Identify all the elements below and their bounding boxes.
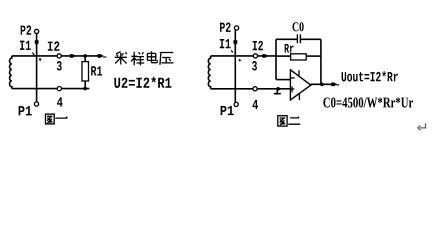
annotation 采样电压 (sampled voltage), drawn glyphs xyxy=(115,51,174,65)
inductor L2 (CT secondary winding) xyxy=(208,56,210,89)
wire: feedback left vertical (C0/Rr to inverting input) xyxy=(275,39,277,79)
wire: bottom horizontal to + input xyxy=(211,88,291,90)
wire: C0 branch right xyxy=(301,38,321,40)
annotation C0=4500/W*Rr*Ur xyxy=(323,97,413,107)
tiny tail after output arrow xyxy=(337,84,340,86)
电 xyxy=(147,51,157,62)
annotation U2=I2*R1 xyxy=(114,77,171,88)
caption 二 xyxy=(288,117,300,124)
caption 一 xyxy=(55,117,67,118)
annotation Uout=I2*Rr xyxy=(342,71,398,81)
label 4 xyxy=(57,97,63,106)
label Rr xyxy=(285,44,294,53)
label 3 xyxy=(57,61,62,71)
op-amp plus input sign xyxy=(290,86,295,92)
resistor R1 stubs xyxy=(84,56,86,89)
采 xyxy=(115,52,127,65)
resistor R1 body xyxy=(82,62,89,81)
caption 图一 (Figure 1) : 图 drawn xyxy=(46,114,55,124)
wire: top horizontal (secondary to summing node) xyxy=(211,55,276,57)
label 3 xyxy=(252,61,257,71)
resistor Rr body xyxy=(291,54,307,60)
arrow at right end of top wire xyxy=(98,54,104,58)
label P1 xyxy=(221,106,234,115)
wire: C0 branch left xyxy=(276,38,297,40)
label I1 xyxy=(220,39,231,48)
node: junction dot top of R1 xyxy=(83,54,87,58)
terminal 3 (open circle) xyxy=(253,54,257,58)
small arrowhead below junction xyxy=(39,58,42,61)
样 xyxy=(131,52,144,65)
op-amp U1 triangle xyxy=(290,70,310,100)
label 4 xyxy=(252,100,258,109)
label P1 xyxy=(19,106,32,115)
terminal 3 (open circle) xyxy=(57,54,61,58)
wire: feedback right vertical down to output xyxy=(320,39,322,84)
node: junction dot bottom of R1 xyxy=(83,87,87,91)
small tick left of junction xyxy=(33,53,35,56)
wire: output xyxy=(311,83,332,85)
terminal P1 (open circle) xyxy=(234,102,238,106)
label P2 xyxy=(21,25,32,34)
label P2 xyxy=(220,23,231,32)
arrow at output wire end xyxy=(331,83,337,87)
node: junction dot ground stub xyxy=(276,87,280,91)
caption 图二 (Figure 2) : 图 drawn xyxy=(278,116,287,126)
ground stub on + input rail xyxy=(274,89,281,94)
terminal P2 (open circle) xyxy=(35,29,39,33)
arrow I1 current (down) on vertical conductor xyxy=(233,40,237,45)
op-amp minus input sign xyxy=(291,77,295,79)
terminal 4 (open circle) xyxy=(57,87,61,91)
arrow I2 on top wire (right) xyxy=(262,54,268,58)
wire: Rr branch right segment xyxy=(306,55,321,57)
small arrowhead right of junction xyxy=(239,59,242,62)
wire: main vertical conductor P2 to P1 xyxy=(234,30,236,102)
label I2 xyxy=(48,41,60,50)
op-amp power stubs xyxy=(298,70,300,100)
gray paragraph return mark xyxy=(418,123,426,130)
node: junction dot output/feedback xyxy=(320,83,324,87)
wire: Rr branch left segment xyxy=(276,55,291,57)
terminal P1 (open circle) xyxy=(34,102,38,106)
label I2 xyxy=(253,41,263,50)
label I1 xyxy=(20,41,31,50)
wire: top horizontal (secondary to R1) xyxy=(12,55,99,57)
wire: inverting input horizontal xyxy=(276,79,290,81)
label R1 xyxy=(91,66,102,75)
inductor L1 (CT secondary winding) xyxy=(10,56,12,89)
small tick left of junction xyxy=(231,50,233,52)
wire: main vertical conductor P2 to P1 xyxy=(36,33,38,102)
arrow I2 on top wire (right) xyxy=(70,54,76,58)
arrow I1 current (down) on vertical conductor xyxy=(35,40,39,45)
压 xyxy=(160,53,174,65)
label C0 xyxy=(292,22,303,31)
terminal 4 (open circle) xyxy=(253,87,257,91)
tiny tail after arrow xyxy=(103,56,106,58)
capacitor C0 plates xyxy=(297,34,300,43)
terminal P2 (open circle) xyxy=(235,26,239,30)
wire: bottom horizontal (return to R1) xyxy=(12,88,90,90)
